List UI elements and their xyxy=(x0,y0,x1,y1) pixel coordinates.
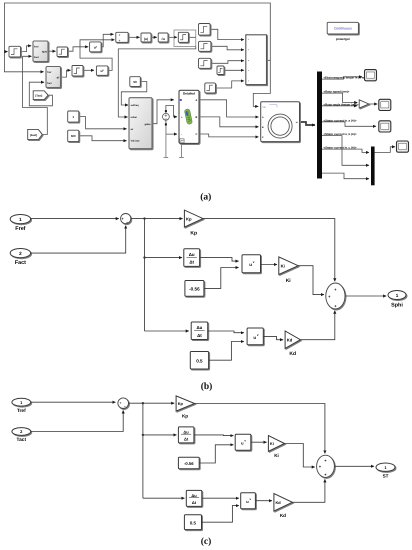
svg-text:B: B xyxy=(195,116,197,119)
svg-text:Kp: Kp xyxy=(178,401,184,406)
svg-text:<Electromagnetic torque Te (N*: <Electromagnetic torque Te (N*m)> xyxy=(324,77,367,80)
svg-text:Detailed: Detailed xyxy=(183,91,195,95)
svg-text:Kd: Kd xyxy=(276,500,282,505)
svg-text:Tm: Tm xyxy=(262,106,265,109)
svg-text:<Rotor angle thetam (rad)>: <Rotor angle thetam (rad)> xyxy=(324,103,359,106)
svg-text:Δt: Δt xyxy=(189,260,194,265)
svg-text:outfreq: outfreq xyxy=(131,104,140,107)
svg-text:Tref: Tref xyxy=(17,408,26,414)
svg-text:Kd: Kd xyxy=(289,351,296,357)
svg-text:refsol: refsol xyxy=(131,116,138,119)
svg-text:(a): (a) xyxy=(200,193,211,203)
svg-text:m: m xyxy=(296,121,298,124)
svg-text:Kd: Kd xyxy=(287,337,293,342)
svg-text:2: 2 xyxy=(19,251,22,256)
svg-text:(b): (b) xyxy=(201,382,213,392)
svg-text:Fref: Fref xyxy=(34,45,39,48)
svg-text:<Stator current is_c (A)>: <Stator current is_c (A)> xyxy=(324,147,357,150)
svg-text:-0.56: -0.56 xyxy=(189,287,200,292)
svg-text:Δu: Δu xyxy=(191,493,197,498)
svg-text:Ki: Ki xyxy=(281,263,285,268)
svg-text:wr: wr xyxy=(131,128,134,131)
svg-text:1: 1 xyxy=(19,217,22,222)
svg-text:Fact: Fact xyxy=(34,56,39,59)
svg-text:<Rotor speed (wm)>: <Rotor speed (wm)> xyxy=(324,91,350,94)
svg-text:−: − xyxy=(124,405,126,409)
svg-text:Vdc bus: Vdc bus xyxy=(131,140,141,143)
svg-text:Δu: Δu xyxy=(196,325,202,330)
svg-text:Kp: Kp xyxy=(186,216,192,221)
svg-text:Kp: Kp xyxy=(190,231,197,237)
svg-text:Δu: Δu xyxy=(189,252,195,257)
svg-text:Δt: Δt xyxy=(197,333,202,338)
svg-text:50: 50 xyxy=(133,80,137,84)
svg-text:[Fact]: [Fact] xyxy=(30,134,37,137)
svg-text:Δu: Δu xyxy=(183,429,189,434)
svg-text:0.5: 0.5 xyxy=(196,358,203,363)
svg-text:gates: gates xyxy=(145,123,152,126)
svg-text:Kd: Kd xyxy=(280,513,286,518)
svg-text:Fact: Fact xyxy=(15,260,26,266)
svg-text:0.5: 0.5 xyxy=(190,521,197,526)
svg-text:Δt: Δt xyxy=(192,500,197,505)
svg-text:A: A xyxy=(195,99,197,102)
svg-text:+: + xyxy=(120,401,122,405)
svg-text:Tact: Tact xyxy=(17,437,27,443)
svg-text:Δt: Δt xyxy=(184,437,189,442)
svg-text:Sphi: Sphi xyxy=(42,50,47,53)
svg-text:Tref: Tref xyxy=(47,71,51,74)
svg-text:C: C xyxy=(195,133,197,136)
svg-text:ST: ST xyxy=(383,474,389,479)
svg-text:<Stator current is_a (A)>: <Stator current is_a (A)> xyxy=(324,119,357,122)
svg-text:Ki: Ki xyxy=(286,278,292,284)
svg-text:-0.56: -0.56 xyxy=(184,461,194,466)
svg-text:Tact: Tact xyxy=(47,82,52,85)
svg-text:√u: √u xyxy=(161,37,165,41)
svg-text:(c): (c) xyxy=(201,537,212,547)
svg-text:500: 500 xyxy=(71,134,76,138)
svg-text:|u|: |u| xyxy=(144,37,148,41)
svg-text:+: + xyxy=(119,38,121,42)
svg-text:Ki: Ki xyxy=(274,453,279,458)
svg-text:Fref: Fref xyxy=(15,226,25,232)
svg-text:+: + xyxy=(119,33,121,37)
svg-text:Kp: Kp xyxy=(182,414,188,419)
svg-text:Ki: Ki xyxy=(270,441,274,446)
svg-text:<Stator current is_b (A)>: <Stator current is_b (A)> xyxy=(324,133,357,136)
svg-text:-: - xyxy=(181,133,182,136)
svg-text:[Tact]: [Tact] xyxy=(35,95,42,98)
svg-text:Continuous: Continuous xyxy=(334,27,352,31)
svg-text:powergui: powergui xyxy=(336,37,350,41)
svg-text:Sphi: Sphi xyxy=(391,302,403,308)
svg-text:1: 1 xyxy=(396,293,399,298)
